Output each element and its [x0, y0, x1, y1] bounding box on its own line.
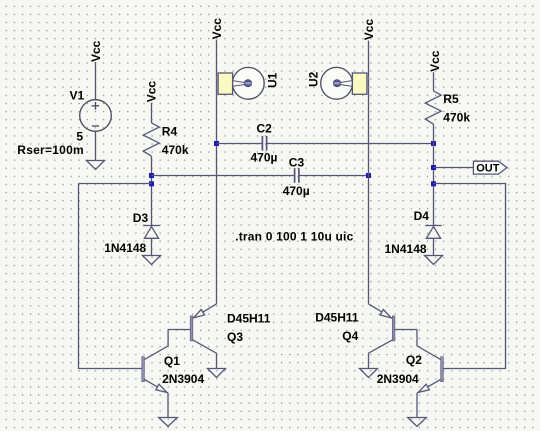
lamp U1	[217, 67, 265, 99]
wire left rail (base node to Q1)	[79, 184, 142, 369]
svg-text:C2: C2	[257, 122, 273, 136]
transistor Q3 (PNP D45H11)	[168, 304, 216, 369]
wire R5 bottom to D4	[433, 124, 435, 225]
svg-text:V1: V1	[70, 88, 85, 102]
wire V1 minus to ground	[95, 131, 97, 160]
svg-text:470µ: 470µ	[283, 184, 310, 198]
svg-text:Vcc: Vcc	[210, 18, 224, 40]
wire R4 bottom to D3	[151, 156, 153, 225]
svg-text:470k: 470k	[162, 143, 189, 157]
svg-text:470µ: 470µ	[251, 151, 278, 165]
wire to OUT port	[434, 167, 474, 169]
wire Vcc to V1 plus	[95, 62, 97, 100]
ground (Q1 emitter)	[159, 418, 178, 427]
diode D4	[425, 225, 442, 227]
svg-text:Vcc: Vcc	[428, 50, 442, 72]
svg-text:Q3: Q3	[227, 330, 243, 344]
lamp U2	[321, 67, 369, 99]
svg-text:470k: 470k	[443, 110, 470, 124]
wire C2 left	[217, 143, 263, 145]
svg-text:U2: U2	[306, 71, 320, 87]
ground (D3)	[143, 256, 161, 265]
svg-text:Rser=100m: Rser=100m	[17, 143, 84, 157]
junction (R4 / C3 node)	[149, 173, 154, 178]
wire Vcc to lamp U2	[368, 41, 370, 304]
junction (U1 / C2 node)	[214, 141, 219, 146]
transistor Q1 (NPN 2N3904)	[142, 330, 168, 418]
port OUT	[473, 161, 507, 174]
transistor Q4 (PNP D45H11)	[369, 304, 418, 369]
wire Vcc to R5	[433, 72, 435, 91]
ground (V1)	[87, 161, 105, 170]
capacitor C2	[261, 136, 263, 151]
ground (D4)	[425, 256, 443, 265]
svg-text:2N3904: 2N3904	[162, 372, 204, 386]
resistor R5	[425, 91, 441, 124]
wire D3 anode to ground	[151, 238, 153, 255]
wire C3 right	[299, 175, 368, 177]
svg-text:Vcc: Vcc	[89, 40, 103, 62]
wire Vcc to R4	[151, 103, 153, 123]
wire C2 right	[267, 143, 434, 145]
wire D4 anode to ground	[433, 238, 435, 255]
svg-text:R4: R4	[162, 125, 178, 139]
svg-text:2N3904: 2N3904	[377, 372, 419, 386]
wire base node to R4/D3	[79, 183, 152, 185]
svg-text:D3: D3	[133, 211, 149, 225]
svg-text:1N4148: 1N4148	[104, 241, 146, 255]
svg-text:D45H11: D45H11	[227, 312, 271, 326]
svg-text:Q4: Q4	[342, 329, 358, 343]
svg-text:R5: R5	[443, 92, 459, 106]
ground (Q3 collector)	[208, 369, 226, 378]
svg-text:D4: D4	[414, 209, 430, 223]
svg-text:Vcc: Vcc	[145, 81, 159, 103]
svg-text:1N4148: 1N4148	[385, 242, 427, 256]
wire C3 left	[152, 175, 295, 177]
svg-text:.tran 0 100 1 10u uic: .tran 0 100 1 10u uic	[235, 230, 353, 244]
junction (R4 / base wire node)	[149, 181, 154, 186]
svg-text:Vcc: Vcc	[362, 19, 376, 41]
svg-text:C3: C3	[289, 155, 305, 169]
ground (Q4 collector)	[360, 369, 378, 378]
svg-text:U1: U1	[265, 72, 279, 88]
voltage source V1	[80, 100, 112, 132]
capacitor C3	[294, 168, 296, 183]
junction (C2 / R5 node)	[431, 141, 436, 146]
svg-text:Q2: Q2	[406, 353, 422, 367]
diode D3	[143, 225, 160, 227]
svg-text:Q1: Q1	[164, 354, 180, 368]
svg-text:OUT: OUT	[476, 163, 500, 175]
wire Vcc to lamp U1	[216, 40, 218, 304]
transistor Q2 (NPN 2N3904)	[417, 330, 443, 418]
junction (OUT node)	[431, 165, 436, 170]
wire right rail (Q2 collector to base node)	[434, 184, 506, 369]
junction (Q2 collector node)	[431, 181, 436, 186]
svg-text:5: 5	[76, 129, 83, 143]
svg-text:D45H11: D45H11	[315, 311, 359, 325]
ground (Q2 emitter)	[408, 418, 427, 427]
resistor R4	[143, 123, 159, 156]
junction (C3 / U2 node)	[366, 173, 371, 178]
